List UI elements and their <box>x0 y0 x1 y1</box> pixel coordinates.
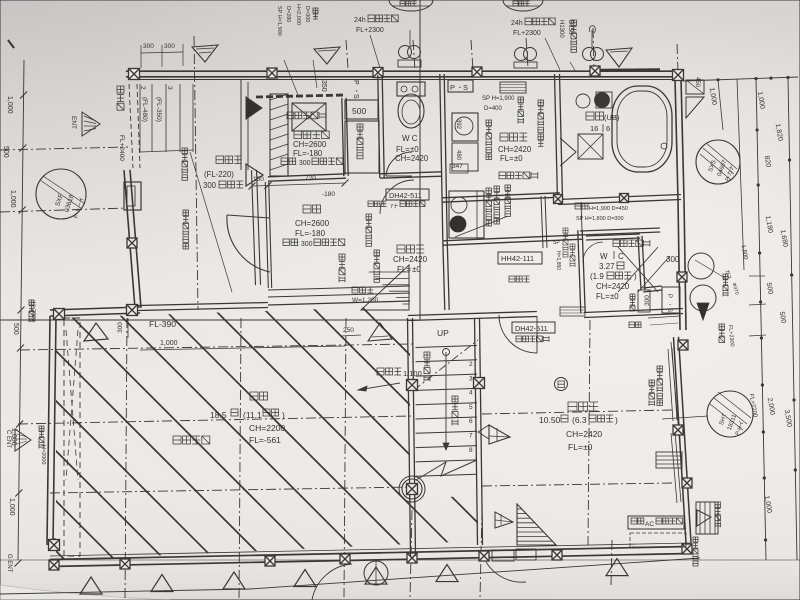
kagi label 2 <box>366 214 372 220</box>
garage slope arrow <box>358 383 400 390</box>
washroom east partition <box>541 196 543 248</box>
shelf hatch top <box>500 82 526 93</box>
150 720 dims <box>252 183 345 186</box>
column SW corner <box>49 540 60 551</box>
svg-text:7ナ: 7ナ <box>390 203 399 210</box>
bedroom window label vertical <box>657 366 663 372</box>
svg-text:150: 150 <box>253 176 264 183</box>
grid line horizontal y148 left <box>0 147 128 150</box>
entrance door label <box>183 210 189 216</box>
svg-text:P: P <box>666 294 672 298</box>
svg-text:500: 500 <box>12 323 19 335</box>
wall bathroom west x558 <box>555 74 558 200</box>
svg-text:FL=: FL= <box>596 292 610 301</box>
svg-text:2: 2 <box>139 86 146 90</box>
porch step lines <box>240 80 242 170</box>
bath dark fixture <box>595 93 610 108</box>
svg-text:FL=-180: FL=-180 <box>293 149 323 158</box>
svg-text:FL=: FL= <box>397 265 411 274</box>
WC2 wall stub <box>586 238 640 240</box>
garage north wall <box>50 313 140 316</box>
gas cylinders <box>688 253 714 279</box>
bedroom door arc <box>499 315 537 353</box>
svg-text:: 300: : 300 <box>295 160 311 167</box>
right dim vertical x718 <box>718 80 723 130</box>
svg-text:(UB): (UB) <box>604 113 620 122</box>
entrance hall label <box>303 205 311 213</box>
svg-text:・: ・ <box>666 302 672 307</box>
hall door undercut label <box>368 201 374 207</box>
svg-text:1,000: 1,000 <box>6 96 13 114</box>
hall under-stair flight triangle <box>361 265 409 310</box>
svg-text:3: 3 <box>166 86 173 90</box>
wall washroom south y198 <box>442 197 560 202</box>
wall x380 WC west <box>378 75 380 178</box>
svg-text:W C: W C <box>402 134 418 143</box>
svg-text:P: P <box>450 83 455 92</box>
tarappu label <box>715 502 721 508</box>
bath door fold <box>560 138 576 166</box>
svg-text:450: 450 <box>694 77 700 88</box>
svg-text:720: 720 <box>305 175 316 182</box>
WC toilet bowl <box>398 94 424 128</box>
bedroom triangle marker <box>489 425 510 444</box>
right stamp P-kana circle <box>696 140 740 184</box>
svg-text:1,000: 1,000 <box>160 340 178 347</box>
wall stair west x412 <box>408 318 411 556</box>
svg-text:DH42-511: DH42-511 <box>389 191 422 200</box>
WC2 300 box <box>638 290 650 312</box>
column south wall x345 <box>340 554 350 564</box>
stair text ceiling <box>424 352 430 358</box>
garage south sill corner <box>52 544 56 546</box>
PS label box top <box>448 80 473 92</box>
wall below entrance y308 porch <box>138 308 268 311</box>
exterior finish label <box>182 148 188 154</box>
svg-text:D=400: D=400 <box>484 106 503 112</box>
WIC door arc <box>583 242 603 262</box>
bedroom NE closet lines <box>648 316 680 318</box>
svg-text:H1300: H1300 <box>558 20 564 38</box>
svg-text:S: S <box>352 94 359 99</box>
space label vertical <box>518 97 524 103</box>
svg-text:10.50: 10.50 <box>539 415 561 425</box>
WC2 ceiling label <box>613 240 620 247</box>
svg-text:FL-390: FL-390 <box>149 319 176 329</box>
wall entrance/closet divider y177 <box>268 178 346 181</box>
gas leader <box>695 260 725 278</box>
grid line vertical x128 below <box>125 318 127 600</box>
svg-text:±0: ±0 <box>412 265 421 274</box>
svg-text:P: P <box>352 80 359 85</box>
grid line horizontal y563 site boundary <box>0 589 250 594</box>
wall bedroom north y313 <box>408 317 537 321</box>
svg-text:CH=2420: CH=2420 <box>498 145 532 154</box>
grid line vertical x412 <box>413 40 415 70</box>
svg-text:±0: ±0 <box>410 145 419 154</box>
column SE bedroom corner <box>682 544 692 554</box>
left dim ticks <box>20 92 27 99</box>
porch hanging wall dashed <box>129 84 133 168</box>
fan symbol 1 <box>399 46 412 59</box>
paper bottom edge curve <box>0 585 170 600</box>
porch west wall <box>124 170 135 308</box>
bathtub <box>612 86 672 172</box>
top stamp P-kana 2 <box>503 0 543 11</box>
svg-text:H=1,900 D=450: H=1,900 D=450 <box>589 206 628 212</box>
svg-text:G ENT: G ENT <box>6 554 12 573</box>
garage doma label <box>173 436 181 444</box>
svg-text:300: 300 <box>117 322 124 333</box>
svg-text:2: 2 <box>469 361 473 368</box>
svg-text:±0: ±0 <box>610 292 619 301</box>
column x595 north wall <box>590 66 600 76</box>
washer pan small rects <box>452 143 478 171</box>
stair zigzag bottom <box>416 460 477 480</box>
svg-text:5: 5 <box>469 404 473 411</box>
tarappu ladder outside <box>696 502 718 534</box>
svg-text:SP H=1,900: SP H=1,900 <box>276 6 282 36</box>
lining label <box>571 20 577 26</box>
svg-text:6: 6 <box>469 418 473 425</box>
svg-text:(FL-220): (FL-220) <box>204 170 234 179</box>
mark top left edge <box>8 40 14 48</box>
svg-text:D=280: D=280 <box>285 6 291 22</box>
shitari-kabe label <box>117 86 124 93</box>
WIC top wall <box>580 232 660 235</box>
wall WIC west x581 <box>578 230 581 313</box>
grid line vertical x592 <box>593 28 594 70</box>
left dim line <box>18 60 24 560</box>
gate swing arc 1 <box>312 564 352 600</box>
garage slope label <box>377 368 384 375</box>
svg-text:-180: -180 <box>322 191 335 198</box>
WC toilet tank <box>397 82 425 96</box>
svg-text:AC: AC <box>645 521 654 528</box>
grid line vertical x612 below <box>611 540 612 585</box>
svg-text:±0: ±0 <box>583 442 593 452</box>
svg-text:(6.3: (6.3 <box>572 415 587 425</box>
svg-text:3.27: 3.27 <box>599 262 615 271</box>
svg-text:24h: 24h <box>511 20 523 27</box>
entrance post label <box>339 254 345 260</box>
DH42-511 box bedroom <box>512 322 555 333</box>
grid line horizontal y421 garage <box>18 416 412 424</box>
svg-text:DH42-511: DH42-511 <box>515 324 548 333</box>
wall stair east x479 <box>475 318 478 545</box>
wall WC south y174 <box>380 176 442 178</box>
svg-text:500: 500 <box>2 146 9 158</box>
wall hall south y240 <box>443 239 583 245</box>
floor access label <box>499 172 506 179</box>
svg-text:(FL-480): (FL-480) <box>141 97 148 122</box>
closet label tenjo <box>287 112 294 119</box>
column garage NW <box>54 309 65 320</box>
stair landing text <box>452 396 458 402</box>
svg-text:SP H=1,800 D=300: SP H=1,800 D=300 <box>576 216 624 222</box>
washer box <box>452 113 478 141</box>
column x477 north wall <box>472 67 482 77</box>
svg-text:FL=-180: FL=-180 <box>295 229 326 238</box>
north wall inner thick line <box>128 79 681 81</box>
ENT triangle hatch top <box>82 112 100 136</box>
wall x344 closet east <box>342 98 344 176</box>
top dim 300 300 <box>141 52 183 53</box>
WC2 5dan label <box>629 322 635 328</box>
vanity counter <box>449 191 484 238</box>
entrance storage label <box>294 131 302 139</box>
svg-text:): ) <box>282 410 285 420</box>
vent triangle below wall <box>368 323 392 341</box>
FL column bands <box>139 84 141 152</box>
grid line horizontal y490 full <box>50 487 412 493</box>
WIC side labels left <box>563 228 568 233</box>
svg-text:8: 8 <box>469 447 473 454</box>
svg-text:24h: 24h <box>354 17 366 24</box>
garage label kanji <box>250 392 258 400</box>
gate swing arc 2 <box>486 562 526 582</box>
fan symbol 2 <box>515 48 528 61</box>
bath fixtures circle <box>576 94 590 108</box>
bedroom east wall <box>674 337 687 551</box>
grid line horizontal y348 garage <box>20 344 412 350</box>
WIC ceiling X <box>618 247 658 292</box>
svg-text:500: 500 <box>352 106 366 116</box>
C ENT triangle <box>15 429 31 451</box>
right dim vertical x760 <box>756 79 766 560</box>
column east wall y273 <box>677 272 687 282</box>
step rects on south wall <box>492 550 514 561</box>
column east wall y345 <box>678 340 688 350</box>
svg-text:UP: UP <box>437 328 449 338</box>
svg-text:(1.9: (1.9 <box>590 272 604 281</box>
column NW corner <box>129 69 140 80</box>
triangle marker left of stairs triangle <box>495 512 513 528</box>
svg-text:HH42-111: HH42-111 <box>501 254 534 263</box>
vent triangle 1 <box>192 45 218 62</box>
bedroom big triangle stairs <box>517 504 556 545</box>
svg-text:CH=2420: CH=2420 <box>393 255 428 264</box>
grid line vertical x525 <box>526 38 528 68</box>
bedroom undercut label <box>516 336 522 342</box>
svg-text:1,000: 1,000 <box>8 498 15 516</box>
bath south wall columns <box>554 195 563 204</box>
column garage north x133 <box>127 305 138 316</box>
vent triangle 2 <box>314 47 340 64</box>
closet dim texts <box>575 203 581 209</box>
right dim vertical x737 <box>737 79 744 270</box>
svg-text:300: 300 <box>143 43 154 50</box>
WIC shelf band <box>560 307 585 316</box>
svg-text:D150: D150 <box>567 20 573 35</box>
svg-text:FL+2300: FL+2300 <box>513 30 541 37</box>
svg-text:: 300: : 300 <box>297 241 313 248</box>
svg-text:16: 16 <box>590 124 598 133</box>
closet lower cabinet <box>345 121 379 173</box>
wall entrance closet west hatched <box>270 94 288 176</box>
wall x443 WC east / washroom west <box>440 74 443 240</box>
column stair east mid <box>474 378 485 389</box>
svg-text:): ) <box>615 415 618 425</box>
svg-text:H=2,000: H=2,000 <box>295 4 301 25</box>
grid line vertical x240 below <box>239 318 241 600</box>
grid line vertical x480 below <box>480 510 482 598</box>
entrance door arc <box>227 215 270 272</box>
triangle small left <box>478 425 489 439</box>
svg-text:CH=2420: CH=2420 <box>596 282 630 291</box>
WC2 PS box <box>662 287 680 313</box>
garage shutter dashed track <box>64 318 80 556</box>
entrance step label <box>352 287 358 293</box>
svg-text:(FL-350): (FL-350) <box>155 97 162 122</box>
500 dim seg <box>749 275 765 277</box>
left stamp circle SXF <box>36 169 86 219</box>
AC label box <box>628 516 684 529</box>
bath window top <box>600 68 660 71</box>
bedroom window right <box>672 348 677 420</box>
svg-text:4: 4 <box>469 390 473 397</box>
svg-text:350: 350 <box>320 80 327 92</box>
svg-text:FL+2300: FL+2300 <box>356 27 384 34</box>
right dim line y80 <box>683 77 798 81</box>
svg-text:300: 300 <box>164 43 175 50</box>
column SW corner 2 <box>49 560 59 570</box>
column bedroom east y428 <box>673 425 683 435</box>
east exterior wall bathroom <box>675 78 678 200</box>
bedroom smoke detector circle <box>555 378 568 391</box>
svg-text:FL=-561: FL=-561 <box>249 435 281 445</box>
svg-text:H=1,850: H=1,850 <box>555 251 561 270</box>
svg-text:7: 7 <box>469 433 473 440</box>
svg-text:CH=2420: CH=2420 <box>566 429 602 439</box>
WC2 shelf label <box>630 294 635 299</box>
svg-text:±0: ±0 <box>514 154 523 163</box>
stair top circle <box>443 349 450 356</box>
WC door arc <box>386 152 412 176</box>
top stamp P-kana 1 <box>389 0 433 11</box>
hall label <box>397 245 405 253</box>
column NE corner <box>673 70 684 81</box>
svg-text:300: 300 <box>644 295 651 306</box>
south exterior wall <box>50 554 690 567</box>
svg-text:(11.1: (11.1 <box>243 410 262 420</box>
washroom lower labels <box>486 120 492 126</box>
grid line vertical x470 <box>471 40 473 70</box>
closet ceiling access X-box <box>292 103 326 131</box>
washroom label <box>500 133 508 141</box>
svg-text:300: 300 <box>203 181 217 190</box>
svg-text:FL=: FL= <box>500 154 514 163</box>
porch door leaf <box>124 182 141 210</box>
column south wall x480 <box>479 551 489 561</box>
bathroom east appendage <box>686 80 704 94</box>
svg-text:FL+2400: FL+2400 <box>118 135 125 161</box>
grid line vertical x193 <box>194 36 198 310</box>
svg-text:SP H=1,900: SP H=1,900 <box>482 96 515 102</box>
column stair west mid <box>407 380 418 391</box>
svg-text:W: W <box>600 252 608 261</box>
kyukiko label <box>719 324 725 330</box>
right stamp SHT circle <box>662 416 708 419</box>
column x377 north wall <box>373 68 383 78</box>
svg-text:480: 480 <box>455 150 461 161</box>
bath washplace X tile <box>578 134 603 159</box>
svg-text:SP: SP <box>553 240 560 246</box>
north exterior wall <box>126 76 683 78</box>
column bedroom east y483 <box>682 478 692 488</box>
svg-text:ENT: ENT <box>70 116 77 129</box>
closet 500 box <box>345 100 378 119</box>
staircase treads <box>416 346 478 348</box>
wall closet top dashed thick <box>256 95 345 97</box>
column south wall x412 <box>407 553 417 563</box>
wall entrance south steps <box>268 286 410 290</box>
leader lines from labels <box>284 60 298 95</box>
svg-text:1,000: 1,000 <box>9 190 16 208</box>
svg-text:300: 300 <box>666 255 680 264</box>
svg-text:S: S <box>666 308 672 312</box>
entrance west wall lower <box>265 182 268 288</box>
bathroom label <box>586 112 594 120</box>
grid line vertical x676 <box>677 44 678 72</box>
exterior finish divider leader <box>190 152 232 292</box>
wall WC/bedroom y313 <box>584 314 683 318</box>
svg-text:392: 392 <box>455 119 461 130</box>
gas black triangle <box>697 303 709 320</box>
svg-text:1/100: 1/100 <box>403 369 422 378</box>
garage west wall <box>47 316 50 545</box>
garage dim 1900 <box>140 346 345 350</box>
DH42-511 box hall <box>386 189 429 200</box>
stair arrow down <box>445 352 447 450</box>
key label <box>509 276 515 282</box>
svg-text:CH=2600: CH=2600 <box>293 140 327 149</box>
column south wall x270 <box>265 556 275 566</box>
hall vanity wall <box>443 240 445 310</box>
column x270 north wall <box>267 68 277 78</box>
bottom triangles row <box>80 577 102 594</box>
HH42-111 box <box>498 252 542 264</box>
grid line horizontal y421 bedroom <box>482 410 672 414</box>
wall bathroom south y200 <box>558 200 681 205</box>
AC dashed box <box>630 533 686 547</box>
vanity labels vertical <box>486 188 492 194</box>
tarappu shita label <box>693 537 698 542</box>
column south wall x125 <box>120 559 130 569</box>
svg-text:W=1,200: W=1,200 <box>352 297 379 304</box>
svg-text:S: S <box>463 83 468 92</box>
porch label <box>216 156 224 164</box>
grid line horizontal y210 left <box>0 208 128 212</box>
right dim vertical x788 <box>788 78 797 561</box>
svg-text:18.5: 18.5 <box>210 410 227 420</box>
stair break line <box>414 340 478 390</box>
fan symbol 3 <box>583 48 596 61</box>
column south wall x555 <box>552 550 562 560</box>
svg-text:H=2000: H=2000 <box>40 445 46 464</box>
hall door arc top <box>380 180 414 214</box>
stair bottom column with circles <box>407 484 418 495</box>
svg-text:CH=2600: CH=2600 <box>295 219 330 228</box>
vanity leader <box>455 216 508 237</box>
grid line vertical x345 <box>346 40 348 68</box>
east wall WC area <box>678 200 680 330</box>
svg-text:CH=2200: CH=2200 <box>249 423 285 433</box>
porch triangle open <box>246 164 263 186</box>
grid line vertical x345 garage <box>344 318 346 597</box>
kitchen panel label diag <box>505 185 511 191</box>
bedroom east rung box <box>656 452 682 468</box>
